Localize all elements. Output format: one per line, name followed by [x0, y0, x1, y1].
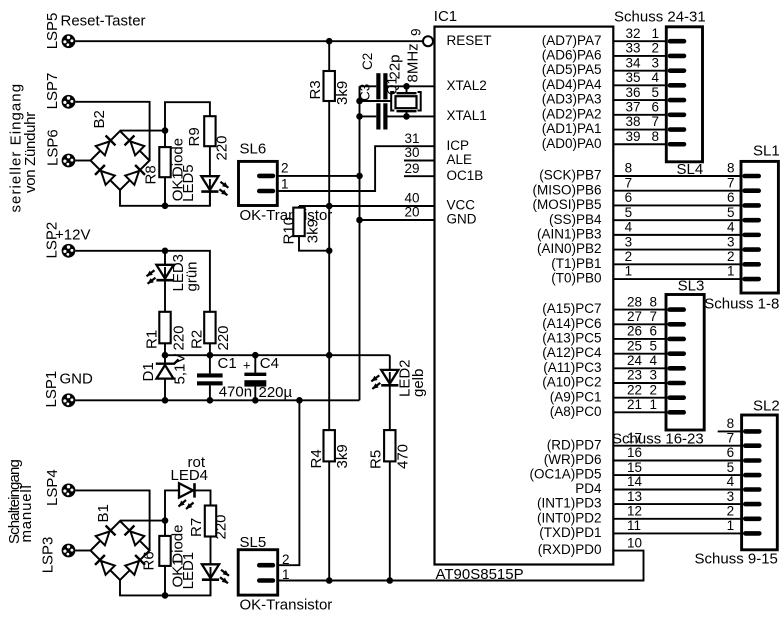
pin number 31: [404, 131, 419, 146]
svg-text:(AD3)PA3: (AD3)PA3: [542, 92, 602, 107]
svg-text:XTAL1: XTAL1: [447, 108, 487, 123]
SL3 pin number 8: [650, 294, 658, 309]
SL2 pin number 1: [727, 518, 735, 533]
wire PB0 to SL1: [613, 278, 741, 280]
SL2 pin number 3: [727, 489, 735, 504]
svg-text:220: 220: [215, 325, 232, 350]
label SL3: [678, 278, 705, 295]
pin number 28: [627, 294, 642, 309]
svg-text:4: 4: [650, 353, 658, 368]
IC1 pin label (A10)PC2: [542, 375, 601, 390]
junction C4: [252, 352, 259, 359]
svg-text:grün: grün: [184, 261, 201, 291]
svg-text:220: 220: [213, 514, 230, 539]
wire SL6 pin2 to GND rail: [278, 175, 360, 177]
SL4 pin number 5: [652, 85, 660, 100]
SL4 pin number 1: [652, 26, 660, 41]
svg-text:(A14)PC6: (A14)PC6: [542, 316, 601, 331]
wire PB3 to SL1: [613, 234, 741, 236]
IC1 value AT90S8515P: [436, 566, 524, 583]
pin number 5: [625, 205, 633, 220]
svg-text:3k9: 3k9: [305, 219, 322, 243]
svg-text:IC1: IC1: [434, 8, 457, 25]
pin number 39: [626, 129, 641, 144]
svg-text:8: 8: [652, 129, 660, 144]
pin number 11: [627, 518, 641, 533]
wire B1 minus rail: [120, 580, 211, 595]
pin number 2: [625, 249, 633, 264]
wire PA5 to SL4: [613, 70, 666, 72]
svg-text:29: 29: [404, 161, 419, 176]
pin number 21: [627, 397, 642, 412]
svg-text:R6: R6: [141, 551, 158, 570]
svg-text:1: 1: [727, 518, 735, 533]
svg-text:1: 1: [650, 397, 658, 412]
pin number 26: [627, 324, 642, 339]
svg-text:3k9: 3k9: [334, 81, 351, 105]
svg-text:SL1: SL1: [753, 143, 780, 160]
wire LED4 branch: [165, 490, 211, 520]
svg-text:SL3: SL3: [678, 278, 705, 295]
junction R1/D1: [162, 352, 169, 359]
pin number 32: [626, 26, 641, 41]
wire PA6 to SL4: [613, 55, 666, 57]
IC1 pin label GND: [447, 212, 477, 227]
wire LSP3 to bridge B1: [75, 550, 90, 552]
wire B1 plus output: [120, 520, 165, 522]
svg-text:24: 24: [627, 353, 643, 368]
svg-text:LSP6: LSP6: [45, 129, 62, 166]
svg-text:2: 2: [652, 41, 660, 56]
wire GND pin20: [360, 219, 435, 221]
svg-text:1: 1: [625, 264, 633, 279]
wire LSP4 to bridge B1: [75, 490, 149, 550]
pin number 17: [627, 430, 642, 445]
pin number 30: [404, 145, 419, 160]
wire PA4 to SL4: [613, 84, 666, 86]
IC1 pin label (AIN1)PB3: [537, 226, 602, 241]
svg-text:3: 3: [727, 489, 735, 504]
IC1 pin label (A13)PC5: [542, 331, 601, 346]
wire B2 top rail to R9: [165, 102, 210, 130]
SL2 pin number 8: [727, 416, 735, 431]
svg-text:OC1B: OC1B: [447, 168, 484, 183]
pin number 3: [625, 234, 633, 249]
svg-text:(RD)PD7: (RD)PD7: [547, 437, 602, 452]
svg-text:+: +: [243, 358, 251, 373]
resistor R9: [186, 116, 216, 146]
svg-text:2: 2: [282, 552, 290, 567]
IC1 pin label ICP: [447, 138, 470, 153]
resistor R3: [307, 41, 335, 206]
svg-text:PD4: PD4: [575, 481, 602, 496]
svg-text:1: 1: [281, 176, 289, 191]
svg-text:1: 1: [652, 26, 660, 41]
connector SL6: [239, 141, 278, 206]
RESET inversion bubble pin9: [423, 36, 433, 46]
wire PC4 to SL3: [613, 353, 666, 355]
IC1 pin label (SCK)PB7: [539, 168, 601, 183]
label +12V: [55, 227, 90, 244]
wire PB5 to SL1: [613, 204, 741, 206]
capacitor C2: [360, 53, 388, 100]
label OK1 upper: [170, 171, 187, 201]
svg-text:Reset-Taster: Reset-Taster: [61, 13, 146, 30]
pin number 16: [627, 445, 642, 460]
svg-text:gelb: gelb: [410, 369, 427, 397]
R3 value 3k9: [334, 81, 351, 105]
svg-text:LSP5: LSP5: [44, 13, 61, 50]
junction B2+/R8: [162, 127, 169, 134]
wire GND distribution: [75, 399, 359, 401]
junction D1/GND: [162, 397, 169, 404]
svg-text:40: 40: [404, 191, 419, 206]
R10 value 3k9: [305, 219, 322, 243]
svg-text:R4: R4: [308, 449, 325, 468]
wire GND rail: [359, 86, 361, 400]
wire PC1 to SL3: [613, 397, 666, 399]
svg-text:AT90S8515P: AT90S8515P: [436, 566, 524, 583]
label Schuss 16-23: [612, 430, 704, 447]
label OK-Transistor lower: [240, 597, 333, 614]
R1 value 220: [171, 325, 188, 350]
wire PD5 to SL2: [613, 474, 741, 476]
svg-text:(AD0)PA0: (AD0)PA0: [542, 136, 602, 151]
wire PB4 to SL1: [613, 219, 741, 221]
SL3 pin number 1: [650, 397, 658, 412]
SL2 pin number 2: [727, 504, 735, 519]
pin number 23: [627, 368, 642, 383]
solder pad LSP1: [43, 371, 75, 408]
wire PB1 to SL1: [613, 263, 741, 265]
pin number 33: [626, 41, 641, 56]
IC1 pin label (A8)PC0: [550, 404, 602, 419]
svg-text:1: 1: [727, 264, 735, 279]
SL1 pin number 4: [727, 220, 735, 235]
connector SL4: [666, 27, 702, 162]
pin number 15: [627, 460, 642, 475]
svg-text:(A8)PC0: (A8)PC0: [550, 404, 602, 419]
IC1 pin label (WR)PD6: [544, 452, 602, 467]
wire SL6 pin1 to ICP: [278, 146, 435, 191]
svg-text:(A13)PC5: (A13)PC5: [542, 331, 601, 346]
crystal Q1: [360, 77, 421, 116]
svg-text:C1: C1: [218, 355, 237, 372]
resistor R6: [141, 521, 171, 596]
SL2 pin number 4: [727, 474, 735, 489]
label Schuss 1-8: [704, 295, 779, 312]
IC1 pin label VCC: [447, 198, 476, 213]
svg-text:Schuss 24-31: Schuss 24-31: [614, 9, 706, 26]
svg-text:7: 7: [727, 430, 735, 445]
svg-text:R7: R7: [188, 518, 205, 537]
SL4 pin number 7: [652, 114, 660, 129]
wire PC0 to SL3: [613, 411, 666, 413]
svg-text:36: 36: [626, 85, 641, 100]
svg-text:3: 3: [727, 234, 735, 249]
label OK1 lower: [170, 557, 187, 587]
SL4 pin number 2: [652, 41, 660, 56]
junction SL5 pin2 riser: [296, 397, 303, 404]
svg-text:B2: B2: [91, 110, 108, 128]
junction reset/R3: [326, 38, 333, 45]
solder pad LSP7: [44, 73, 75, 110]
SL5 pin number 2: [282, 552, 290, 567]
R4 value 3k9: [334, 444, 351, 468]
svg-text:4: 4: [625, 220, 633, 235]
wire PC6 to SL3: [613, 323, 666, 325]
pin number 37: [626, 100, 641, 115]
svg-text:6: 6: [727, 445, 735, 460]
svg-text:R5: R5: [368, 450, 385, 469]
svg-text:GND: GND: [447, 212, 477, 227]
label LED1: [180, 552, 197, 590]
wire PA7 to SL4: [613, 40, 666, 42]
pin number 9: [409, 28, 424, 36]
svg-text:(AD6)PA6: (AD6)PA6: [542, 48, 602, 63]
IC1 pin label (T0)PB0: [551, 271, 601, 286]
svg-text:LSP4: LSP4: [44, 469, 61, 506]
SL6 pin number 2: [281, 161, 289, 176]
SL1 pin number 3: [727, 234, 735, 249]
svg-text:(T1)PB1: (T1)PB1: [551, 256, 601, 271]
pin number 20: [404, 205, 419, 220]
wire PA2 to SL4: [613, 114, 666, 116]
svg-text:von Zünduhr: von Zünduhr: [22, 112, 39, 193]
svg-text:(OC1A)PD5: (OC1A)PD5: [529, 467, 601, 482]
IC1 pin label (INT0)PD2: [537, 510, 602, 525]
wire B2 minus rail: [120, 190, 210, 206]
svg-text:(INT1)PD3: (INT1)PD3: [537, 496, 602, 511]
LED LED4: [171, 467, 209, 509]
wire XTAL2 net: [360, 85, 435, 87]
svg-text:22: 22: [627, 382, 642, 397]
svg-text:10: 10: [627, 535, 642, 550]
wire PA0 to SL4: [613, 143, 666, 145]
wire PA3 to SL4: [613, 99, 666, 101]
resistor R2: [188, 312, 215, 355]
IC1 pin label PD4: [575, 481, 602, 496]
capacitor C4 electrolytic: [243, 355, 279, 400]
wire OC1B stub: [404, 175, 435, 177]
SL1 pin number 2: [727, 249, 735, 264]
svg-text:(A11)PC3: (A11)PC3: [543, 360, 601, 375]
svg-text:32: 32: [626, 26, 641, 41]
svg-text:5: 5: [727, 205, 735, 220]
SL1 pin number 7: [727, 175, 735, 190]
pin number 29: [404, 161, 419, 176]
svg-text:2: 2: [727, 249, 735, 264]
svg-text:(A10)PC2: (A10)PC2: [542, 375, 601, 390]
IC1 pin label (AD1)PA1: [542, 121, 602, 136]
pin number 13: [627, 489, 642, 504]
wire VCC pin40: [299, 205, 435, 207]
svg-text:(AD5)PA5: (AD5)PA5: [542, 62, 602, 77]
svg-text:5: 5: [650, 338, 658, 353]
junction R10/VCC rail: [326, 247, 333, 254]
IC1 pin label (T1)PB1: [551, 256, 601, 271]
SL2 pin8 stub wire: [718, 430, 742, 432]
svg-text:9: 9: [409, 28, 424, 36]
svg-text:VCC: VCC: [447, 198, 476, 213]
svg-text:GND: GND: [60, 370, 94, 387]
svg-text:31: 31: [404, 131, 419, 146]
label LED5: [180, 164, 197, 202]
svg-text:25: 25: [627, 338, 642, 353]
svg-text:LED1: LED1: [180, 552, 197, 590]
svg-text:XTAL2: XTAL2: [447, 78, 487, 93]
svg-text:4: 4: [727, 474, 735, 489]
svg-text:470: 470: [395, 444, 412, 469]
pin number 10: [627, 535, 642, 550]
svg-text:220: 220: [171, 325, 188, 350]
SL2 pin number 7: [727, 430, 735, 445]
SL3 pin number 5: [650, 338, 658, 353]
svg-text:6: 6: [625, 190, 633, 205]
SL3 pin number 2: [650, 382, 658, 397]
svg-text:(AD1)PA1: (AD1)PA1: [542, 121, 602, 136]
Q1 value 8MHz: [405, 43, 422, 82]
svg-text:R1: R1: [144, 330, 161, 349]
IC1 pin label (A15)PC7: [542, 301, 601, 316]
label SL2: [753, 398, 780, 415]
svg-text:(A12)PC4: (A12)PC4: [542, 345, 602, 360]
SL3 pin number 6: [650, 324, 658, 339]
resistor R8: [143, 131, 171, 206]
wire PD6 to SL2: [613, 460, 741, 462]
connector SL1: [741, 161, 778, 293]
IC1 pin label (MOSI)PB5: [532, 197, 601, 212]
pin number 36: [626, 85, 641, 100]
IC1 pin label (AIN0)PB2: [537, 241, 602, 256]
connector SL3: [666, 295, 704, 431]
svg-text:(AIN0)PB2: (AIN0)PB2: [537, 241, 602, 256]
svg-text:22p: 22p: [387, 54, 404, 79]
C1 value 470n: [219, 384, 252, 401]
svg-text:(A9)PC1: (A9)PC1: [550, 389, 602, 404]
wire XTAL1 net: [360, 115, 435, 117]
svg-text:(AD4)PA4: (AD4)PA4: [542, 77, 602, 92]
IC1 pin label (MISO)PB6: [532, 182, 601, 197]
svg-text:8: 8: [625, 161, 633, 176]
svg-text:C2: C2: [360, 53, 375, 70]
svg-text:4: 4: [727, 220, 735, 235]
SL3 pin number 3: [650, 368, 658, 383]
label Diode upper: [170, 138, 187, 177]
LED LED1: [202, 537, 229, 596]
svg-text:4: 4: [652, 70, 660, 85]
svg-text:17: 17: [627, 430, 642, 445]
R5 value 470: [395, 444, 412, 469]
solder pad LSP5: [44, 13, 75, 50]
junction R4/bottom rail: [326, 577, 333, 584]
IC1 pin label (SS)PB4: [549, 212, 602, 227]
svg-text:(MOSI)PB5: (MOSI)PB5: [532, 197, 601, 212]
svg-text:SL2: SL2: [753, 398, 780, 415]
svg-text:12: 12: [627, 504, 642, 519]
C2 value 22p: [387, 54, 404, 79]
wire reset net: [75, 40, 423, 42]
svg-text:28: 28: [627, 294, 642, 309]
pin number 12: [627, 504, 642, 519]
svg-text:8: 8: [727, 416, 735, 431]
pin number 14: [627, 474, 643, 489]
svg-text:5: 5: [652, 85, 660, 100]
LED LED2: [371, 355, 398, 430]
svg-text:5,1V: 5,1V: [172, 354, 189, 385]
pin number 24: [627, 353, 643, 368]
svg-text:26: 26: [627, 324, 642, 339]
solder pad LSP2: [44, 222, 76, 259]
svg-text:33: 33: [626, 41, 641, 56]
solder pad LSP3: [40, 537, 76, 574]
SL1 pin number 1: [727, 264, 735, 279]
wire ALE stub: [404, 160, 435, 162]
svg-text:16: 16: [627, 445, 642, 460]
svg-text:LSP1: LSP1: [43, 371, 60, 408]
IC1 pin label XTAL1: [447, 108, 487, 123]
SL3 pin number 4: [650, 353, 658, 368]
zener diode D1: [140, 355, 179, 400]
svg-text:2: 2: [727, 504, 735, 519]
junction R5/bottom rail: [387, 577, 394, 584]
wire PD7 to SL2: [613, 445, 741, 447]
pin number 8: [625, 161, 633, 176]
solder pad LSP6: [45, 129, 76, 167]
svg-text:(SS)PB4: (SS)PB4: [549, 212, 602, 227]
svg-text:(TXD)PD1: (TXD)PD1: [539, 525, 601, 540]
label gelb: [410, 369, 427, 397]
svg-text:R3: R3: [307, 80, 324, 99]
label LED2: [397, 359, 414, 397]
junction R8/minus rail: [162, 203, 169, 210]
junction C4/GND: [252, 397, 259, 404]
label SL1: [753, 143, 780, 160]
svg-text:7: 7: [650, 309, 658, 324]
svg-text:SL5: SL5: [240, 534, 267, 551]
wire +5V distribution: [165, 354, 390, 356]
svg-text:3: 3: [650, 368, 658, 383]
svg-text:13: 13: [627, 489, 642, 504]
IC1 pin label (AD7)PA7: [542, 33, 602, 48]
IC1 pin label OC1B: [447, 168, 484, 183]
junction R2/C1: [207, 352, 214, 359]
IC1 pin label (A14)PC6: [542, 316, 601, 331]
svg-text:LED4: LED4: [171, 467, 209, 484]
R2 value 220: [215, 325, 232, 350]
wire PC5 to SL3: [613, 338, 666, 340]
IC U1 AT90S8515P outline: [434, 8, 614, 564]
connector SL2: [742, 415, 778, 550]
resistor R5: [368, 430, 396, 580]
label Schuss 24-31: [614, 9, 706, 26]
bridge rectifier B1: [91, 504, 150, 580]
IC1 pin label (AD6)PA6: [542, 48, 602, 63]
IC1 pin label (AD5)PA5: [542, 62, 602, 77]
IC1 pin label ALE: [447, 152, 473, 167]
SL2 pin number 5: [727, 460, 735, 475]
junction GND pin20/GND rail: [356, 217, 363, 224]
junction R6/minus rail: [162, 592, 169, 599]
wire PB6 to SL1: [613, 190, 741, 192]
svg-text:2: 2: [281, 161, 289, 176]
svg-text:6: 6: [650, 324, 658, 339]
svg-text:20: 20: [404, 205, 419, 220]
wire PA1 to SL4: [613, 129, 666, 131]
junction +12V/LED3: [162, 248, 169, 255]
SL2 pin number 6: [727, 445, 735, 460]
wire SL5 pin2 to GND: [278, 400, 300, 565]
